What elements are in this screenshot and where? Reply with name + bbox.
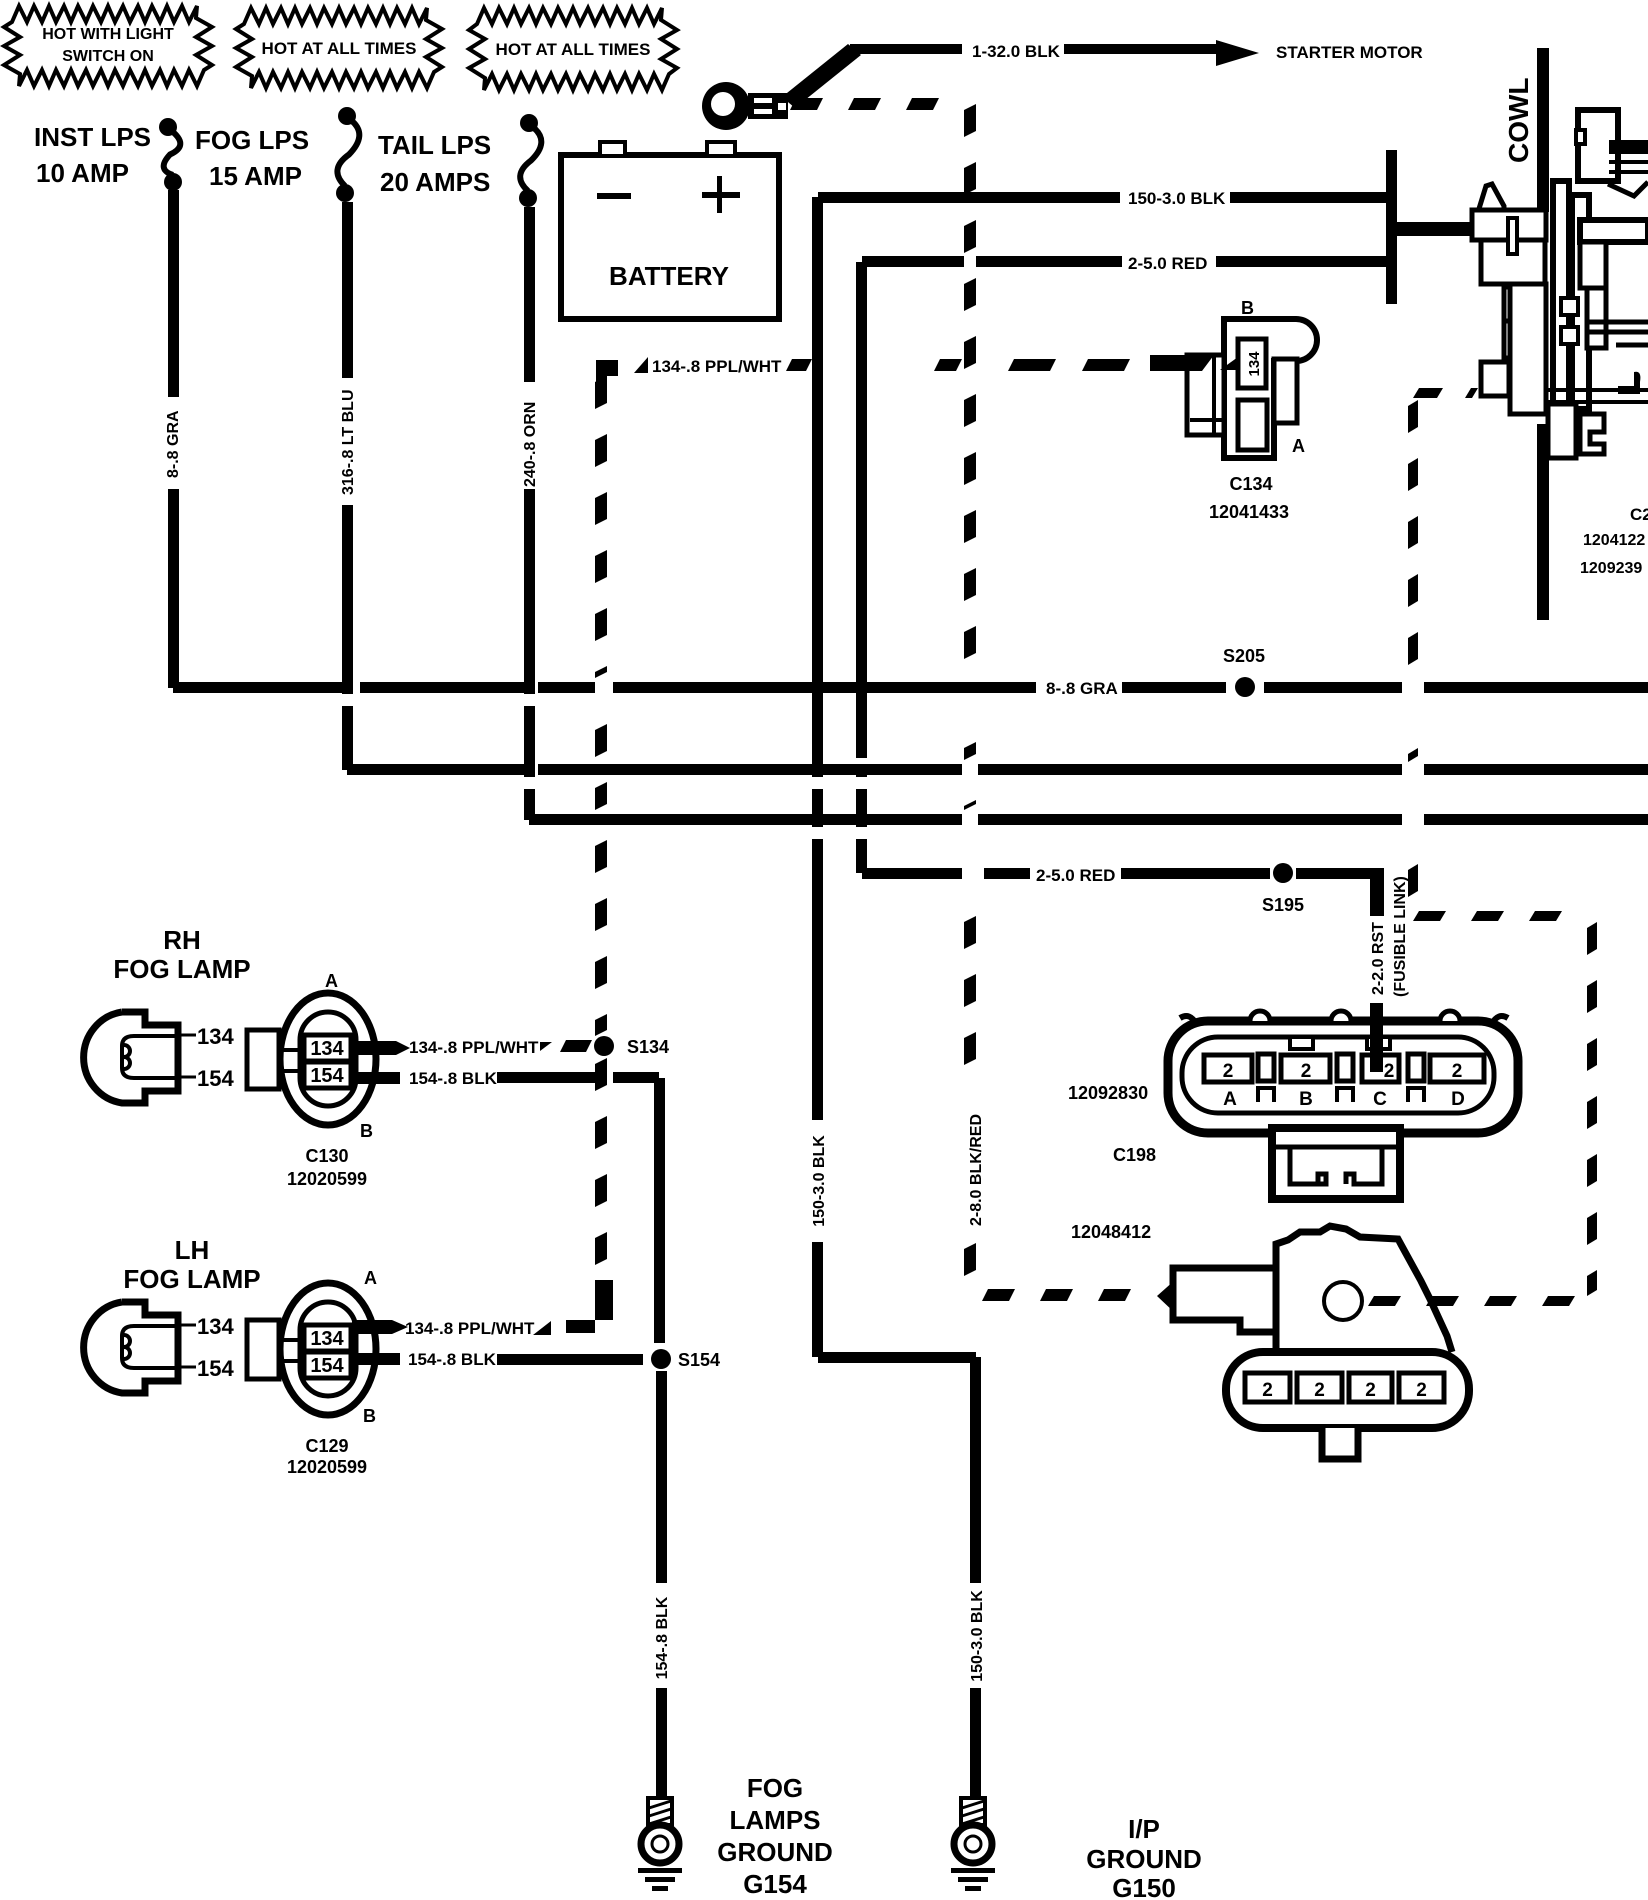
RH fog lamp bulb [84, 925, 251, 1103]
wire 150-3.0 BLK [811, 189, 1386, 1798]
fuse INST LPS 10 AMP [34, 118, 182, 191]
svg-text:134-.8 PPL/WHT: 134-.8 PPL/WHT [652, 357, 782, 376]
svg-text:316-.8 LT BLU: 316-.8 LT BLU [340, 390, 357, 496]
svg-text:2-5.0 RED: 2-5.0 RED [1036, 866, 1115, 885]
LH fog lamp bulb [84, 1235, 261, 1393]
wire 316-.8 LT BLU (FOG LPS feed) [340, 202, 1648, 775]
svg-text:1209239: 1209239 [1580, 560, 1642, 577]
svg-text:15 AMP: 15 AMP [209, 161, 302, 191]
svg-text:C134: C134 [1229, 474, 1272, 494]
svg-text:12041433: 12041433 [1209, 502, 1289, 522]
connector C198 [1068, 1011, 1518, 1242]
power feed box HOT AT ALL TIMES (fog) [236, 8, 442, 88]
ground wire 154-.8 BLK to G154 [654, 1371, 671, 1798]
svg-text:STARTER MOTOR: STARTER MOTOR [1276, 43, 1423, 62]
svg-text:A: A [364, 1268, 377, 1288]
svg-text:2-8.0 BLK/RED: 2-8.0 BLK/RED [968, 1114, 985, 1226]
svg-text:FOG LAMP: FOG LAMP [113, 954, 250, 984]
svg-text:150-3.0 BLK: 150-3.0 BLK [1128, 189, 1226, 208]
svg-text:TAIL LPS: TAIL LPS [378, 130, 491, 160]
splice S154 [651, 1349, 720, 1370]
svg-text:C130: C130 [305, 1146, 348, 1166]
wire 2-5.0 RED [856, 254, 1386, 885]
svg-text:134: 134 [310, 1328, 344, 1350]
svg-text:134: 134 [310, 1038, 344, 1060]
svg-text:C2: C2 [1630, 505, 1648, 524]
svg-text:154-.8 BLK: 154-.8 BLK [654, 1596, 671, 1679]
svg-text:A: A [325, 971, 338, 991]
svg-text:LAMPS: LAMPS [730, 1805, 821, 1835]
power feed box HOT AT ALL TIMES (tail) [469, 8, 677, 90]
fuse TAIL LPS 20 AMPS [378, 114, 541, 207]
svg-text:134: 134 [197, 1314, 234, 1339]
svg-text:154: 154 [310, 1355, 344, 1377]
svg-text:2: 2 [1452, 1061, 1463, 1082]
svg-text:G150: G150 [1112, 1873, 1176, 1900]
splice S205 [1223, 646, 1265, 697]
wire 240-.8 ORN (TAIL LPS feed) [522, 207, 1648, 825]
wire 154-.8 BLK RH [352, 1069, 665, 1343]
svg-text:B: B [360, 1121, 373, 1141]
svg-text:HOT WITH LIGHT: HOT WITH LIGHT [42, 26, 174, 43]
svg-text:C198: C198 [1113, 1145, 1156, 1165]
junction terminal bar [1386, 150, 1473, 304]
svg-text:154-.8 BLK: 154-.8 BLK [408, 1350, 497, 1369]
svg-text:2: 2 [1365, 1380, 1376, 1401]
svg-text:12048412: 12048412 [1071, 1222, 1151, 1242]
label I/P GROUND G150 [1086, 1814, 1202, 1900]
svg-text:1204122: 1204122 [1583, 532, 1645, 549]
connector label C200 (clipped) [1580, 505, 1648, 577]
svg-text:G154: G154 [743, 1869, 807, 1899]
svg-text:SWITCH ON: SWITCH ON [62, 48, 154, 65]
svg-text:8-.8 GRA: 8-.8 GRA [1046, 679, 1118, 698]
splice S134 [594, 1036, 669, 1057]
wire 134-.8 PPL/WHT dashed [595, 357, 1130, 1036]
svg-text:C129: C129 [305, 1436, 348, 1456]
svg-text:BATTERY: BATTERY [609, 261, 729, 291]
svg-text:A: A [1292, 436, 1305, 456]
dashed harness boundary [1368, 388, 1597, 1306]
connector C129 [247, 1268, 377, 1477]
cowl bulkhead connector [1472, 110, 1648, 458]
svg-text:RH: RH [163, 925, 201, 955]
ground G154 terminal [638, 1798, 682, 1891]
svg-text:B: B [1299, 1089, 1313, 1110]
connector C130 [247, 971, 376, 1189]
svg-text:150-3.0 BLK: 150-3.0 BLK [969, 1590, 986, 1682]
svg-text:S154: S154 [678, 1350, 720, 1370]
svg-text:8-.8 GRA: 8-.8 GRA [165, 410, 182, 478]
fusible link wire into pin C [1370, 1003, 1383, 1072]
fusible link bracket [1157, 1226, 1469, 1459]
svg-text:2: 2 [1314, 1380, 1325, 1401]
svg-text:S205: S205 [1223, 646, 1265, 666]
svg-text:GROUND: GROUND [717, 1837, 833, 1867]
svg-text:COWL: COWL [1503, 77, 1534, 163]
svg-text:12020599: 12020599 [287, 1457, 367, 1477]
svg-text:A: A [1223, 1089, 1237, 1110]
svg-text:C: C [1373, 1089, 1387, 1110]
svg-text:(FUSIBLE LINK): (FUSIBLE LINK) [1392, 876, 1409, 997]
svg-text:FOG LAMP: FOG LAMP [123, 1264, 260, 1294]
svg-text:HOT AT ALL TIMES: HOT AT ALL TIMES [262, 39, 417, 58]
wire 134-.8 PPL/WHT RH [352, 1038, 592, 1057]
svg-text:INST LPS: INST LPS [34, 122, 151, 152]
svg-text:134-.8 PPL/WHT: 134-.8 PPL/WHT [405, 1319, 535, 1338]
svg-text:134-.8 PPL/WHT: 134-.8 PPL/WHT [409, 1038, 539, 1057]
label FOG LAMPS GROUND G154 [717, 1773, 833, 1899]
svg-text:HOT AT ALL TIMES: HOT AT ALL TIMES [496, 40, 651, 59]
ring terminal battery feed [702, 82, 788, 130]
svg-text:240-.8 ORN: 240-.8 ORN [522, 402, 539, 487]
svg-text:154: 154 [197, 1066, 234, 1091]
svg-text:B: B [1241, 298, 1254, 318]
svg-text:S134: S134 [627, 1037, 669, 1057]
fuse FOG LPS 15 AMP [195, 107, 359, 202]
svg-text:FOG: FOG [747, 1773, 803, 1803]
svg-text:12020599: 12020599 [287, 1169, 367, 1189]
svg-text:LH: LH [175, 1235, 210, 1265]
svg-text:2: 2 [1223, 1061, 1234, 1082]
svg-text:D: D [1451, 1089, 1465, 1110]
splice S195 [1262, 863, 1304, 915]
fusible link wire 2-2.0 RST [1370, 868, 1409, 997]
svg-text:2-2.0 RST: 2-2.0 RST [1370, 922, 1387, 995]
svg-text:2: 2 [1384, 1061, 1395, 1082]
wire 134-.8 PPL/WHT LH [352, 1058, 613, 1338]
svg-text:154-.8 BLK: 154-.8 BLK [409, 1069, 498, 1088]
battery [561, 142, 779, 319]
cowl panel [1503, 48, 1549, 620]
svg-text:20 AMPS: 20 AMPS [380, 167, 490, 197]
connector C134 [1150, 298, 1317, 522]
svg-text:2-5.0 RED: 2-5.0 RED [1128, 254, 1207, 273]
svg-text:2: 2 [1301, 1061, 1312, 1082]
svg-text:2: 2 [1262, 1380, 1273, 1401]
svg-text:B: B [363, 1406, 376, 1426]
svg-text:134: 134 [197, 1024, 234, 1049]
wire 2-8.0 BLK/RED dashed [790, 98, 1131, 1301]
svg-text:150-3.0 BLK: 150-3.0 BLK [811, 1135, 828, 1227]
svg-text:FOG LPS: FOG LPS [195, 125, 309, 155]
svg-text:S195: S195 [1262, 895, 1304, 915]
svg-text:GROUND: GROUND [1086, 1844, 1202, 1874]
svg-text:154: 154 [310, 1065, 344, 1087]
svg-text:154: 154 [197, 1356, 234, 1381]
svg-text:1-32.0 BLK: 1-32.0 BLK [972, 42, 1061, 61]
svg-text:I/P: I/P [1128, 1814, 1160, 1844]
wire 1-32.0 BLK to starter motor [782, 40, 1423, 108]
svg-text:10 AMP: 10 AMP [36, 158, 129, 188]
svg-text:134: 134 [1246, 351, 1263, 377]
power feed box HOT WITH LIGHT SWITCH ON [4, 6, 212, 86]
wire 154-.8 BLK LH [352, 1350, 643, 1369]
svg-text:12092830: 12092830 [1068, 1083, 1148, 1103]
ground G150 terminal [951, 1798, 995, 1891]
svg-text:2: 2 [1416, 1380, 1427, 1401]
wire 8-.8 GRA (INST LPS feed) [165, 190, 1648, 698]
